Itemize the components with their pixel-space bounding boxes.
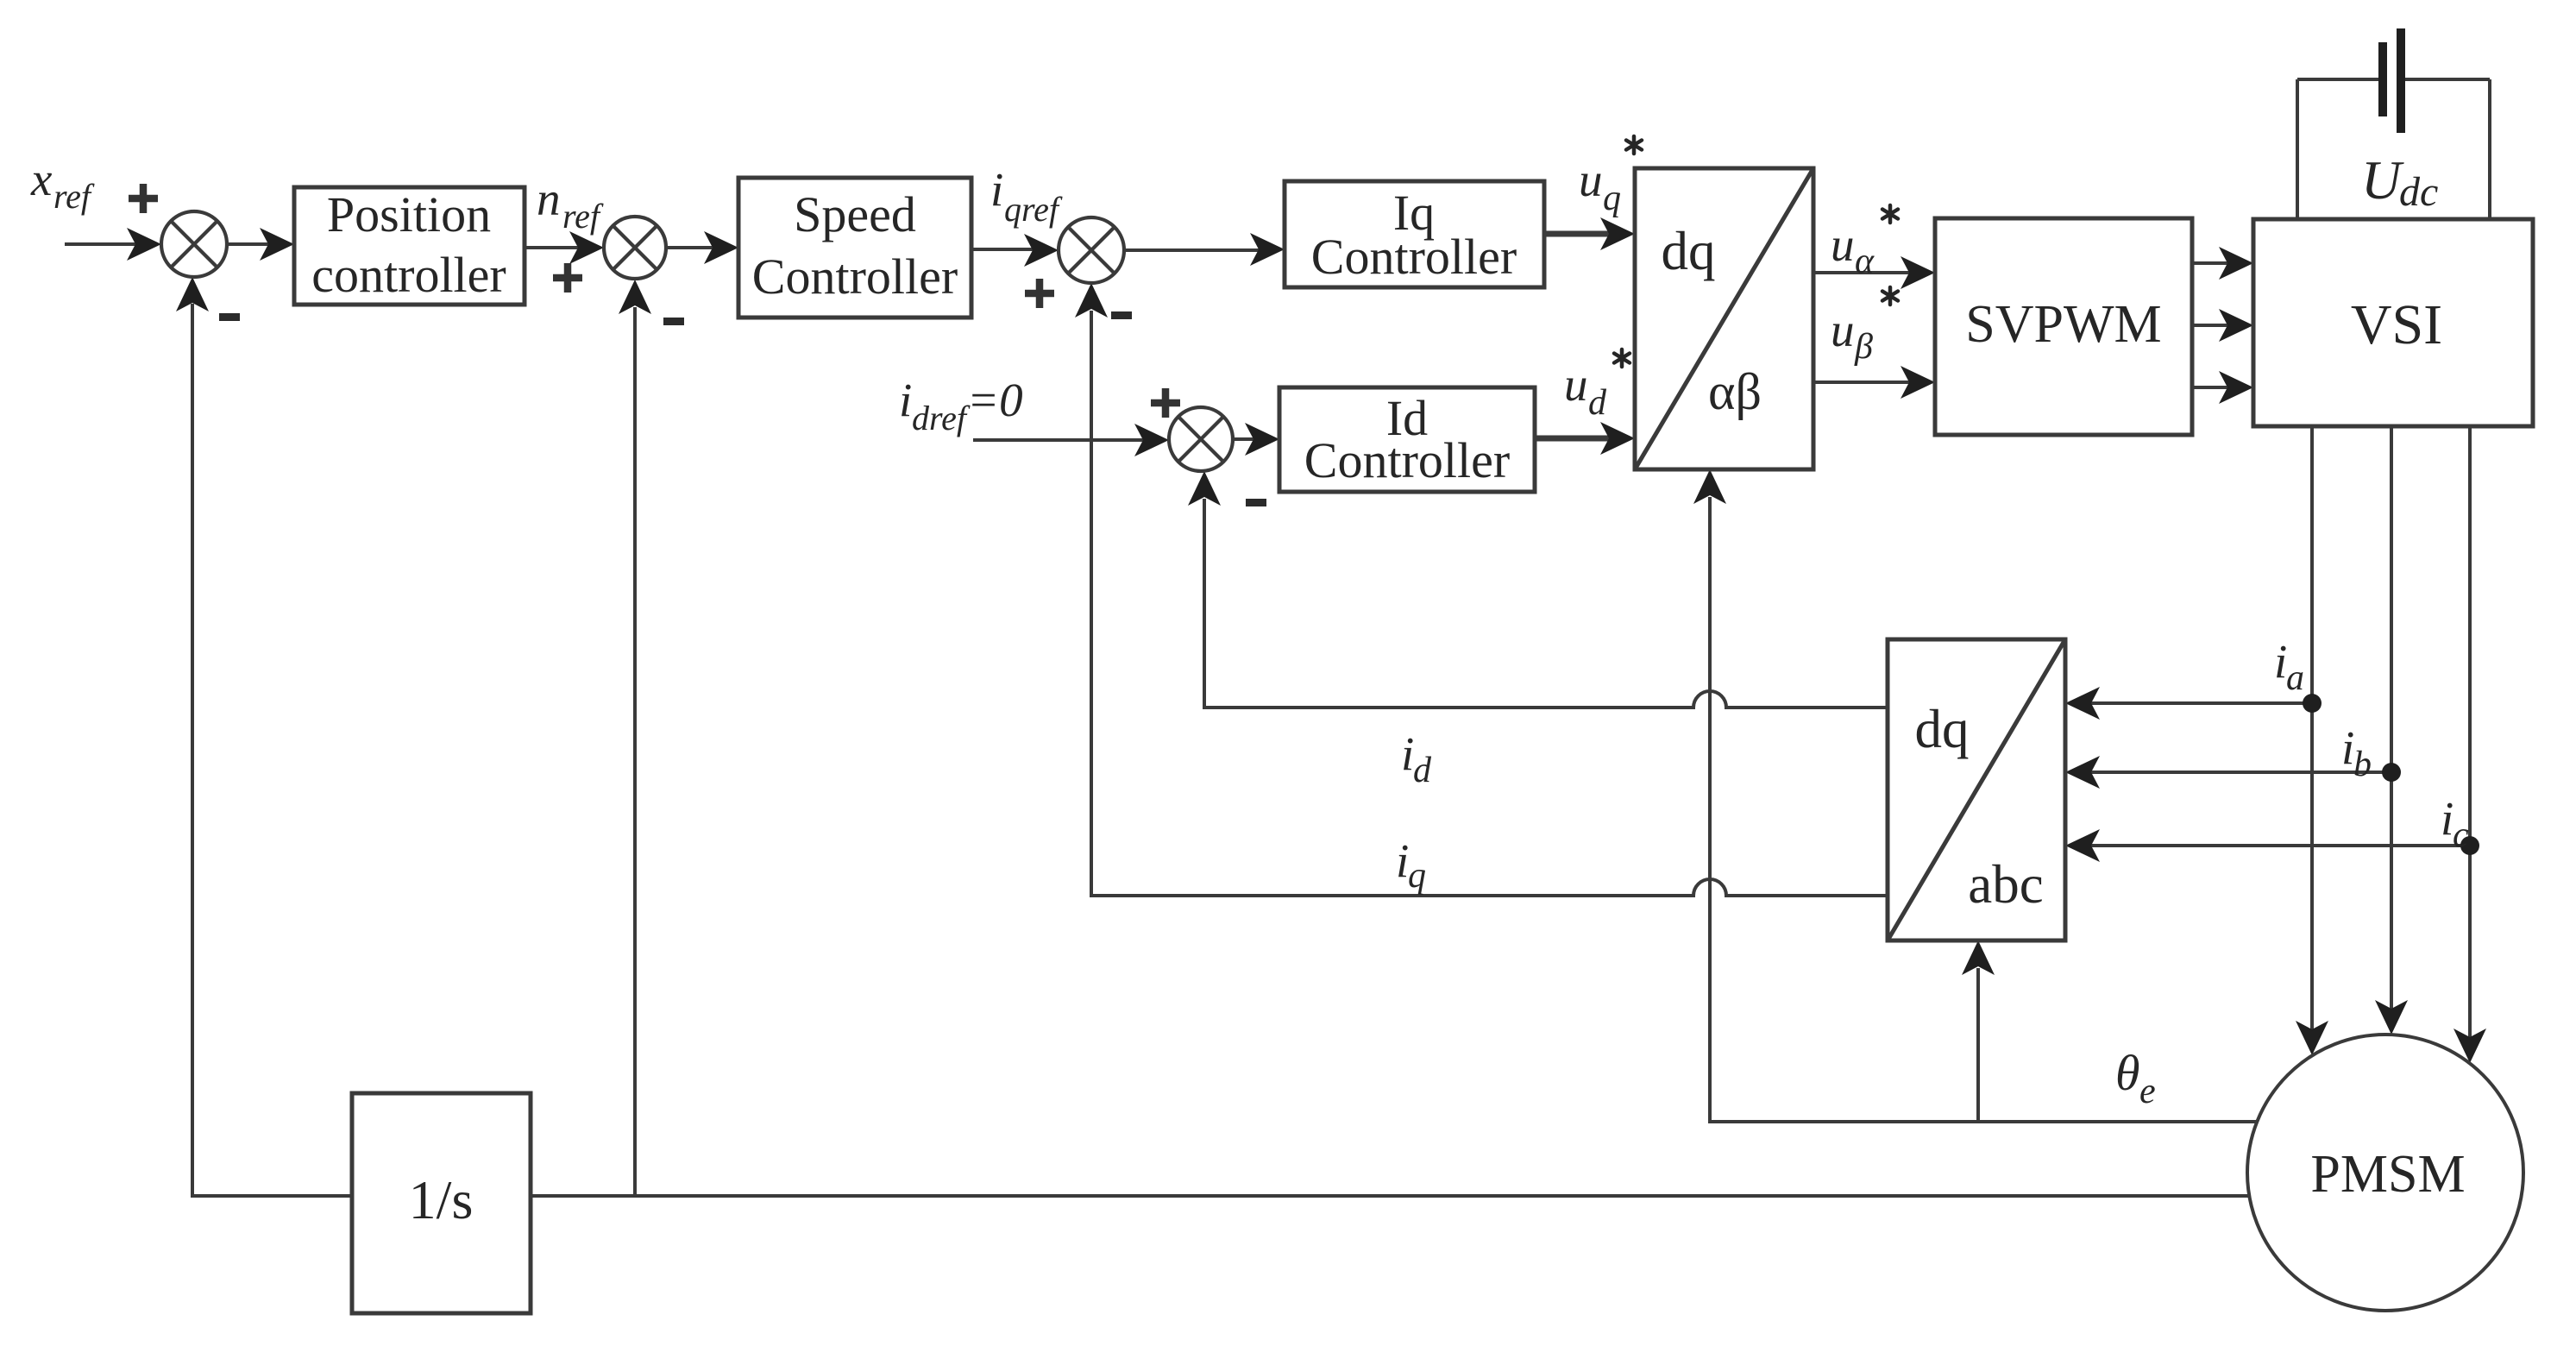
arrowhead into Position controller xyxy=(260,228,294,261)
arrowhead ic into dq abc block xyxy=(2065,829,2100,862)
svg-text:e: e xyxy=(2139,1072,2156,1111)
svg-text:i: i xyxy=(1396,834,1409,887)
arrowhead uq into dq block xyxy=(1600,217,1635,250)
block Id Controller xyxy=(1279,387,1535,492)
svg-text:Speed: Speed xyxy=(794,186,916,242)
wire VSI phase b down to PMSM xyxy=(2390,426,2393,1011)
asterisk on u_beta xyxy=(1882,287,1898,305)
svg-text:ref: ref xyxy=(562,197,604,236)
wire bottom feedback right segment PMSM to 1/s xyxy=(531,1194,2249,1198)
arrowhead into sum1 xyxy=(127,228,161,261)
svg-text:u: u xyxy=(1831,304,1855,356)
arrowhead sum4 into Id Controller xyxy=(1245,423,1279,456)
wire battery right horizontal xyxy=(2405,78,2490,81)
svg-text:b: b xyxy=(2353,745,2372,784)
arrowhead phase b into PMSM xyxy=(2375,1000,2408,1035)
wire ia tap to dq abc block xyxy=(2089,701,2312,705)
summing junction sum2 xyxy=(604,217,666,279)
arrowhead idref into sum4 xyxy=(1134,424,1169,456)
svg-text:i: i xyxy=(2341,721,2354,774)
arrowhead into VSI bottom xyxy=(2219,371,2253,404)
svg-text:U: U xyxy=(2361,149,2404,211)
arrowhead speed feedback into sum2 xyxy=(619,280,651,314)
svg-text:i: i xyxy=(1401,727,1414,780)
svg-text:α: α xyxy=(1855,242,1875,281)
svg-text:PMSM: PMSM xyxy=(2310,1145,2465,1204)
battery plate right xyxy=(2397,28,2405,133)
wire battery left vertical to VSI xyxy=(2296,79,2299,219)
summing junction sum1 xyxy=(161,211,227,277)
block integrator 1/s xyxy=(352,1093,531,1313)
summing junction sum3 xyxy=(1059,217,1124,283)
junction dot ia xyxy=(2303,694,2322,713)
wire sum4 to Id Controller xyxy=(1233,437,1256,441)
wire ud* Id Controller to dq block xyxy=(1535,436,1612,442)
arrowhead ib into dq abc block xyxy=(2065,756,2100,789)
arrowhead phase a into PMSM xyxy=(2296,1021,2328,1055)
svg-text:d: d xyxy=(1588,383,1607,423)
block dq to alpha-beta transform xyxy=(1635,168,1813,469)
arrowhead u_beta into SVPWM xyxy=(1901,366,1935,399)
svg-text:dq: dq xyxy=(1662,221,1716,281)
svg-text:u: u xyxy=(1564,358,1588,411)
svg-text:u: u xyxy=(1579,154,1603,206)
svg-text:αβ: αβ xyxy=(1708,363,1762,420)
wire u_alpha dq block to SVPWM xyxy=(1813,271,1912,274)
arrowhead phase c into PMSM xyxy=(2453,1028,2486,1063)
svg-text:q: q xyxy=(1603,179,1621,218)
arrowhead ia into dq abc block xyxy=(2065,687,2100,720)
junction dot ic xyxy=(2460,836,2479,855)
svg-text:Controller: Controller xyxy=(1311,229,1517,285)
wire theta_e from PMSM to dq block xyxy=(1710,497,2257,1122)
svg-text:q: q xyxy=(1408,856,1426,896)
wire Speed Controller to sum3 xyxy=(971,248,1034,251)
minus sign at sum4 xyxy=(1246,499,1266,506)
minus sign at sum3 xyxy=(1111,311,1132,319)
arrowhead into Speed Controller xyxy=(704,231,738,264)
wire SVPWM to VSI top xyxy=(2192,261,2230,265)
block Speed Controller xyxy=(738,178,971,318)
svg-text:a: a xyxy=(2286,658,2304,698)
wire Position controller to sum2 xyxy=(525,246,582,249)
wire x_ref input xyxy=(65,242,140,246)
svg-text:c: c xyxy=(2453,815,2469,855)
wire theta_e branch to dq abc block xyxy=(1976,968,1980,1122)
wire bottom feedback left segment 1/s to sum1 xyxy=(192,304,352,1196)
svg-text:n: n xyxy=(537,173,561,225)
wire sum1 to Position controller xyxy=(227,242,272,246)
plus sign at sum4 xyxy=(1151,388,1180,418)
svg-text:i: i xyxy=(990,163,1003,216)
svg-text:dc: dc xyxy=(2399,169,2438,215)
arrowhead into VSI middle xyxy=(2219,309,2253,342)
svg-text:ref: ref xyxy=(53,177,95,216)
plus sign at sum1 xyxy=(129,184,158,213)
wire ib tap to dq abc block xyxy=(2089,771,2391,774)
battery plate left xyxy=(2378,42,2387,116)
wire sum2 to Speed Controller xyxy=(666,246,716,249)
minus sign at sum2 xyxy=(663,318,684,325)
wire VSI phase c down to PMSM xyxy=(2468,426,2472,1040)
wire SVPWM to VSI bottom xyxy=(2192,386,2230,389)
arrowhead ud into dq block xyxy=(1600,422,1635,455)
block SVPWM xyxy=(1935,218,2192,435)
svg-text:dq: dq xyxy=(1915,699,1970,759)
arrowhead into Iq Controller xyxy=(1250,233,1285,266)
wire battery left horizontal xyxy=(2297,78,2378,81)
svg-text:abc: abc xyxy=(1968,854,2043,915)
wire speed feedback branch up to sum2 xyxy=(633,307,637,1196)
arrowhead position feedback into sum1 xyxy=(176,277,209,311)
wire sum3 to Iq Controller xyxy=(1124,248,1261,252)
plus sign at sum3 xyxy=(1025,279,1054,308)
svg-text:i: i xyxy=(2441,792,2453,845)
svg-text:1/s: 1/s xyxy=(409,1169,474,1230)
wire idref=0 input xyxy=(973,438,1146,442)
wire u_beta dq block to SVPWM xyxy=(1813,381,1912,384)
wire SVPWM to VSI middle xyxy=(2192,324,2230,327)
arrowhead into sum3 xyxy=(1024,234,1059,267)
junction dot ib xyxy=(2382,763,2401,782)
svg-text:x: x xyxy=(30,153,53,205)
svg-text:i: i xyxy=(2274,635,2287,688)
asterisk on u_alpha xyxy=(1882,205,1898,223)
block VSI xyxy=(2253,219,2533,426)
plus sign at sum2 xyxy=(553,263,582,292)
wire VSI phase a down to PMSM xyxy=(2310,426,2314,1032)
block Iq Controller xyxy=(1285,181,1544,287)
wire uq* Iq Controller to dq block xyxy=(1544,231,1612,237)
svg-text:Controller: Controller xyxy=(1304,432,1510,488)
wire id feedback with hop xyxy=(1204,499,1888,708)
svg-text:controller: controller xyxy=(311,247,506,303)
block dq to abc transform xyxy=(1888,639,2065,940)
svg-text:Controller: Controller xyxy=(752,248,958,305)
svg-text:θ: θ xyxy=(2115,1045,2140,1101)
arrowhead into VSI top xyxy=(2219,247,2253,280)
svg-text:β: β xyxy=(1854,327,1873,367)
minus sign at sum1 xyxy=(219,313,240,321)
svg-text:d: d xyxy=(1413,751,1432,790)
wire ic tap to dq abc block xyxy=(2089,844,2470,847)
svg-text:dref: dref xyxy=(912,399,971,437)
svg-text:VSI: VSI xyxy=(2351,293,2442,356)
arrowhead theta_e into dq abc block bottom xyxy=(1962,940,1995,975)
arrowhead iq feedback into sum3 xyxy=(1075,283,1108,318)
svg-text:i: i xyxy=(899,374,912,426)
wire battery right vertical to VSI xyxy=(2488,79,2491,219)
asterisk on u_q xyxy=(1626,136,1642,154)
svg-text:SVPWM: SVPWM xyxy=(1965,295,2161,354)
block Position controller xyxy=(294,187,525,305)
svg-text:Position: Position xyxy=(327,186,491,242)
PMSM motor circle xyxy=(2247,1035,2523,1311)
arrowhead id feedback into sum4 xyxy=(1188,471,1221,506)
arrowhead theta_e into dq block bottom xyxy=(1693,469,1726,504)
arrowhead into sum2 xyxy=(569,231,604,264)
wire iq feedback with hop xyxy=(1091,311,1888,896)
svg-text:=0: =0 xyxy=(967,374,1023,426)
svg-text:qref: qref xyxy=(1004,190,1063,229)
svg-text:u: u xyxy=(1831,218,1855,271)
summing junction sum4 xyxy=(1169,407,1233,471)
arrowhead u_alpha into SVPWM xyxy=(1901,256,1935,289)
asterisk on u_d xyxy=(1614,349,1630,367)
